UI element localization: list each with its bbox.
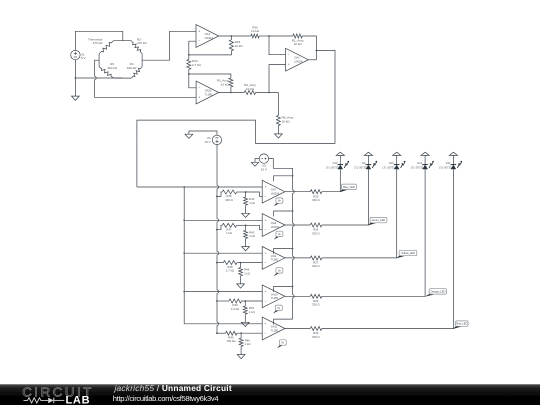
node OA2 + / R6_Amp — [268, 92, 270, 94]
net flag Red_LED — [453, 321, 468, 329]
svg-text:LTL-30733: LTL-30733 — [439, 165, 452, 169]
label R4 220 kOhm — [127, 62, 137, 70]
wire hop over row3 output — [293, 256, 295, 259]
resistor R4_Amp 10 k — [244, 91, 255, 95]
label R30 330 Ω — [312, 331, 320, 339]
comparator OA9 TL081 (row3) — [262, 247, 285, 270]
wire hop over row4 output — [293, 295, 295, 298]
svg-text:Blue_LED: Blue_LED — [343, 185, 355, 189]
wire — [240, 333, 242, 338]
wire R34 top — [230, 36, 232, 40]
LED D10 — [394, 161, 406, 170]
ground row4 divider — [241, 322, 249, 326]
label D12 LTL-30733 — [411, 161, 424, 169]
wire OA3 - input — [189, 41, 196, 55]
comparator OA11 TL081 (row5) — [262, 317, 285, 340]
comparator OA8 LM324 (row2) — [262, 214, 285, 237]
svg-text:D10: D10 — [389, 161, 394, 165]
voltage source V5 15V — [259, 154, 268, 163]
comparator OA10 TL081 (row4) — [262, 285, 285, 308]
node reference bus tap row5 — [216, 332, 218, 334]
svg-text:LM324: LM324 — [294, 60, 303, 64]
svg-text:4.3 kΩ: 4.3 kΩ — [231, 307, 239, 311]
svg-text:+: + — [265, 290, 267, 294]
resistor R42 1 kΩ (row1 divider bottom) — [244, 197, 248, 205]
wire — [240, 346, 242, 354]
wire OA10 output — [285, 295, 310, 297]
svg-text:1 kΩ: 1 kΩ — [249, 310, 255, 314]
wire bridge top segment — [114, 40, 132, 42]
svg-text:470 kΩ: 470 kΩ — [137, 41, 147, 45]
svg-text:TL081: TL081 — [271, 328, 279, 332]
power flag for D13 — [336, 152, 344, 155]
wire divider to OA - row2 — [246, 225, 263, 229]
svg-text:220 kΩ: 220 kΩ — [127, 66, 137, 70]
resistor R25 330 Ω (row1 output) — [310, 190, 322, 194]
net flag 0v at OA7 V- pin — [274, 198, 283, 206]
svg-text:1 kΩ: 1 kΩ — [245, 342, 251, 346]
label R2_Amp 10 kOhm — [217, 78, 229, 86]
label R36 300 Ω — [225, 194, 233, 202]
svg-text:+: + — [198, 96, 200, 100]
wire OA8 output — [285, 224, 310, 226]
svg-text:LTL-30733: LTL-30733 — [354, 165, 367, 169]
resistor R40 150 kΩ (row5 divider top) — [226, 331, 237, 335]
svg-text:D13: D13 — [333, 161, 338, 165]
label R37 1 kΩ — [226, 228, 232, 236]
resistor R35 10 k — [251, 34, 259, 38]
svg-text:OA8: OA8 — [271, 221, 277, 225]
resistor R43 1 kΩ (row2 divider bottom) — [244, 230, 248, 238]
CircuitLab logo — [22, 384, 94, 405]
wire bridge right node to OA3 + — [142, 31, 196, 60]
label V4 15 V — [204, 136, 211, 144]
wire — [237, 191, 246, 193]
svg-text:OA52: OA52 — [205, 89, 212, 93]
svg-text:−: − — [265, 332, 267, 336]
label R35 10 kOhm — [251, 25, 260, 33]
label R46 1 kΩ — [245, 338, 251, 346]
label R29 330 Ω — [312, 299, 320, 307]
wire bridge right segment — [141, 54, 143, 67]
svg-text:OA10: OA10 — [271, 292, 278, 296]
label D10 LTL-30733 — [382, 161, 395, 169]
wire V1+ to bridge top — [75, 31, 122, 50]
resistor R36 300 Ω (row1 divider top) — [222, 190, 236, 194]
svg-text:1 kΩ: 1 kΩ — [226, 231, 232, 235]
svg-text:http://circuitlab.com/csf58twy: http://circuitlab.com/csf58twy6k3v4 — [113, 394, 219, 403]
svg-text:150 kΩ: 150 kΩ — [227, 339, 236, 343]
label R33 2.7 kOhm — [192, 59, 202, 67]
wire supply bus — [292, 193, 294, 223]
node supply bus row3 — [292, 248, 294, 250]
comparator OA7 LM324 (row1) — [262, 180, 285, 203]
svg-text:−: − — [288, 53, 290, 57]
resistor R33 2.7 k — [187, 59, 191, 69]
svg-text:+: + — [265, 185, 267, 189]
wire hop over row5 rail — [217, 322, 219, 325]
label R43 1 kΩ — [249, 230, 255, 238]
wire OA8 V+ supply pin — [274, 211, 293, 216]
svg-text:10 kΩ: 10 kΩ — [282, 119, 291, 123]
wire OA10 V+ supply pin — [274, 287, 293, 292]
svg-text:OA11: OA11 — [271, 325, 278, 329]
node reference bus tap row4 — [216, 300, 218, 302]
resistor R2_Amp 10 k — [229, 78, 233, 87]
wire OA11 V+ supply pin — [274, 319, 293, 324]
wire reference bus — [216, 222, 218, 252]
wire OA2 output — [308, 59, 316, 61]
wire supply bus — [292, 227, 294, 257]
svg-text:OA7: OA7 — [271, 188, 277, 192]
resistor R46 1 kΩ (row5 divider bottom) — [239, 338, 243, 346]
node signal bus row4 — [183, 291, 185, 293]
label R1_Amp 10 kOhm — [292, 38, 304, 46]
wire hop over row2 output — [293, 223, 295, 226]
wire to R1_Amp — [269, 35, 293, 37]
voltage source V1 5V — [71, 50, 80, 59]
wire reference bus — [216, 293, 218, 322]
wire — [339, 155, 341, 164]
label V5 15 V — [261, 164, 267, 172]
wire reference tap row5 — [217, 332, 226, 334]
wire — [237, 262, 262, 264]
svg-text:−: − — [265, 228, 267, 232]
wire signal distribution bus — [183, 187, 185, 324]
wire to OA2 - input — [269, 36, 286, 55]
voltage source V4 15V — [212, 135, 221, 144]
wire R35 to node — [259, 35, 269, 37]
wire reference tap row1 — [217, 192, 222, 196]
wire R6_Amp bottom — [277, 126, 279, 134]
node signal bus row2 — [183, 219, 185, 221]
LED D11 — [451, 161, 463, 170]
label R4_Amp 10 kOhm — [244, 83, 256, 91]
svg-text:2.7 kΩ: 2.7 kΩ — [226, 269, 234, 273]
wire V4+ reference bus — [216, 144, 218, 185]
label D13 LTL-30733 — [326, 161, 339, 169]
svg-text:LM324: LM324 — [271, 192, 280, 196]
svg-text:LTL-30733: LTL-30733 — [382, 165, 395, 169]
wire — [244, 314, 246, 322]
svg-text:OA2: OA2 — [294, 56, 300, 60]
wire R4_Amp to node — [256, 92, 279, 94]
svg-text:+: + — [288, 63, 290, 67]
wire — [452, 155, 454, 164]
svg-text:LM324: LM324 — [205, 36, 214, 40]
wire output to LED2 column — [322, 169, 369, 225]
node OA3 output — [231, 35, 233, 37]
node reference bus tap row1 — [216, 196, 218, 198]
node divider row4 — [244, 300, 246, 302]
wire V4- to ground — [189, 131, 217, 136]
label R42 1 kΩ — [249, 197, 255, 205]
op-amp OA3 LM324 — [196, 25, 219, 48]
wire feedback rail to R34 — [189, 51, 232, 55]
svg-text:330 Ω: 330 Ω — [312, 335, 320, 339]
wire down to R6_Amp — [277, 93, 279, 116]
wire to OA52 - input — [189, 74, 196, 88]
wire signal rail row1 — [137, 186, 262, 188]
node R33 / OA52 — [188, 73, 190, 75]
svg-text:15 V: 15 V — [204, 140, 210, 144]
wire V1- down — [74, 59, 76, 96]
node supply bus row2 — [292, 210, 294, 212]
label R27 330 Ω — [312, 261, 320, 269]
net flag Green_LED — [368, 217, 387, 225]
wire V5+ supply bus — [268, 159, 292, 191]
svg-text:jackrich55 / Unnamed Circuit: jackrich55 / Unnamed Circuit — [114, 383, 232, 393]
svg-text:330 Ω: 330 Ω — [312, 303, 320, 307]
label R38 2.7 kΩ — [226, 265, 234, 273]
wire reference tap row3 — [217, 262, 224, 264]
svg-text:+: + — [265, 322, 267, 326]
svg-text:10 kΩ: 10 kΩ — [221, 82, 230, 86]
wire OA2 + input down — [269, 65, 286, 93]
svg-text:+: + — [198, 29, 200, 33]
wire reference tap row2 — [217, 225, 222, 229]
svg-text:Yellow_LED: Yellow_LED — [401, 251, 415, 255]
net flag 0v at OA10 V- pin — [273, 305, 282, 313]
label R26 330 Ω — [312, 228, 320, 236]
svg-text:D11: D11 — [446, 161, 451, 165]
svg-text:1 kΩ: 1 kΩ — [249, 234, 255, 238]
label R34 10 kOhm — [235, 40, 244, 48]
LED D12 — [422, 161, 434, 170]
node divider row2 — [245, 224, 247, 226]
svg-text:+: + — [265, 218, 267, 222]
wire supply bus — [292, 260, 294, 295]
wire V5- to ground — [255, 159, 260, 163]
wire reference bus — [216, 325, 218, 333]
label R25 330 Ω — [312, 194, 320, 202]
svg-text:OA3: OA3 — [205, 32, 211, 36]
svg-text:300 Ω: 300 Ω — [225, 198, 233, 202]
svg-text:−: − — [265, 195, 267, 199]
ground row5 divider — [237, 355, 245, 359]
ground row1 divider — [242, 213, 250, 217]
svg-text:TL081: TL081 — [271, 258, 279, 262]
net flag 0v at OA9 V- pin — [274, 268, 283, 276]
svg-text:D12: D12 — [417, 161, 422, 165]
node OA52 output — [230, 92, 232, 94]
wire bridge left node down — [95, 60, 100, 76]
svg-text:LM324: LM324 — [271, 225, 280, 229]
op-amp OA2 LM324 — [286, 48, 309, 71]
wire hop over row1 rail — [217, 185, 219, 188]
resistor R38 2.7 kΩ (row3 divider top) — [223, 261, 237, 265]
svg-text:LTL-30733: LTL-30733 — [326, 165, 339, 169]
wire OA9 V+ supply pin — [274, 249, 293, 254]
svg-text:1 kΩ: 1 kΩ — [244, 271, 250, 275]
ground at V5 — [251, 162, 258, 166]
wire — [245, 205, 247, 213]
node supply bus row4 — [292, 286, 294, 288]
wire output to LED4 column — [322, 169, 425, 296]
label D9 LTL-30733 — [354, 161, 367, 169]
svg-text:OA9: OA9 — [271, 254, 277, 258]
svg-text:TL081: TL081 — [271, 296, 279, 300]
label R45 1 kΩ — [249, 306, 255, 314]
resistor R34 10 k — [229, 40, 233, 51]
LED D9 — [366, 161, 378, 170]
wire OA2 output loop to comparator bus — [137, 50, 335, 187]
svg-text:−: − — [198, 86, 200, 90]
wire — [240, 263, 242, 268]
resistor R2 470 k (bridge top-right arm) — [131, 41, 142, 54]
node signal bus tap — [183, 186, 185, 188]
resistor R27 330 Ω (row3 output) — [310, 256, 322, 260]
wire — [424, 155, 426, 164]
wire bridge left segment — [98, 54, 100, 67]
svg-text:360 kΩ: 360 kΩ — [107, 66, 117, 70]
label R44 1 kΩ — [244, 268, 250, 276]
svg-text:2.7 kΩ: 2.7 kΩ — [192, 63, 202, 67]
wire — [367, 155, 369, 164]
svg-text:10 kΩ: 10 kΩ — [251, 29, 260, 33]
svg-text:Orange_LED: Orange_LED — [430, 289, 445, 293]
svg-text:−: − — [198, 39, 200, 43]
resistor R4 220 k (bridge bottom-right arm) — [131, 67, 142, 78]
node divider row3 — [240, 262, 242, 264]
ground at V1 — [72, 96, 80, 100]
power flag for D9 — [364, 152, 372, 155]
svg-text:330 Ω: 330 Ω — [312, 231, 320, 235]
wire — [245, 225, 247, 230]
wire to R33 — [188, 55, 190, 60]
wire — [245, 239, 247, 247]
net flag 0v at OA11 V- pin — [277, 340, 286, 348]
wire to R2_Amp — [189, 74, 231, 78]
wire OA52 output — [219, 92, 244, 94]
wire reference bus — [216, 255, 218, 290]
wire — [237, 224, 246, 226]
wire — [242, 300, 263, 302]
wire R33 bottom — [188, 69, 190, 74]
node divider row1 — [245, 191, 247, 193]
resistor R1_Amp 10 k — [293, 34, 303, 38]
power flag for D12 — [421, 152, 429, 155]
resistor R39 4.3 kΩ (row4 divider top) — [229, 299, 242, 303]
label R6_Amp 10 kOhm — [282, 115, 294, 123]
wire down to OA52 + — [95, 80, 197, 98]
wire OA11 output — [285, 328, 310, 330]
svg-text:TL081: TL081 — [205, 92, 213, 96]
node OA2 - branch — [268, 35, 270, 37]
wire output to LED5 column — [322, 169, 454, 328]
node reference bus tap row2 — [216, 229, 218, 231]
label D11 LTL-30733 — [439, 161, 452, 169]
wire hop over ground rail — [95, 76, 97, 79]
resistor R37 1 kΩ (row2 divider top) — [222, 223, 236, 227]
svg-text:+: + — [265, 251, 267, 255]
ground at V4 — [185, 134, 193, 138]
node OA2 output branch — [316, 50, 318, 52]
ground row3 divider — [237, 284, 245, 288]
svg-text:1 kΩ: 1 kΩ — [249, 201, 255, 205]
svg-text:−: − — [265, 299, 267, 303]
svg-text:10 kΩ: 10 kΩ — [235, 44, 244, 48]
svg-text:10 kΩ: 10 kΩ — [294, 42, 303, 46]
wire hop over row3 rail — [217, 252, 219, 255]
label V1 5 V — [81, 52, 86, 60]
node V1- / bottom rail junction — [75, 77, 77, 79]
wire OA9 output — [285, 257, 310, 259]
net flag Orange_LED — [425, 289, 447, 297]
wire OA7 V+ supply pin — [274, 176, 293, 181]
wire hop over row1 output — [293, 190, 295, 193]
wire signal rail row3 — [184, 252, 262, 254]
power flag for D10 — [393, 152, 401, 155]
svg-text:−: − — [265, 261, 267, 265]
node divider row5 — [240, 332, 242, 334]
wire LED1 column — [339, 169, 341, 191]
svg-text:5 V: 5 V — [81, 56, 86, 60]
resistor R3 360 k (bridge bottom-left arm) — [99, 67, 113, 78]
wire output to LED column — [322, 191, 340, 193]
wire — [237, 332, 262, 334]
svg-text:Red_LED: Red_LED — [456, 322, 467, 326]
label Thermistor 470 kOhm — [88, 37, 103, 45]
power flag for D11 — [449, 152, 457, 155]
label R3 360 kOhm — [107, 62, 117, 70]
resistor R30 330 Ω (row5 output) — [310, 327, 322, 331]
label R40 150 kΩ — [227, 335, 236, 343]
wire R2_Amp bottom — [230, 87, 232, 93]
svg-text:LAB: LAB — [66, 395, 91, 405]
net flag Yellow_LED — [396, 250, 417, 258]
svg-text:10 kΩ: 10 kΩ — [246, 87, 255, 91]
svg-text:LTL-30733: LTL-30733 — [411, 165, 424, 169]
wire R1_Amp to OA2 output — [302, 36, 316, 60]
wire — [396, 155, 398, 164]
wire reference bus — [216, 189, 218, 219]
node OA3 feedback — [188, 54, 190, 56]
wire hop over row2 rail — [217, 219, 219, 222]
LED D13 — [338, 161, 350, 170]
ground below R6_Amp — [275, 134, 283, 138]
wire — [240, 276, 242, 284]
wire — [244, 301, 246, 306]
wire bridge bottom segment — [114, 77, 132, 79]
wire supply bus — [292, 298, 294, 319]
net flag 0v at OA8 V- pin — [274, 231, 283, 239]
ground row2 divider — [242, 247, 250, 251]
resistor R26 330 Ω (row2 output) — [310, 223, 322, 227]
wire bottom rail to bridge bottom — [75, 77, 122, 79]
wire — [245, 192, 247, 197]
svg-text:470 kΩ: 470 kΩ — [93, 41, 103, 45]
node signal bus row3 — [183, 252, 185, 254]
net flag Blue_LED — [340, 184, 357, 192]
svg-text:15 V: 15 V — [261, 168, 267, 172]
resistor R45 1 kΩ (row4 divider bottom) — [243, 306, 247, 314]
svg-text:D9: D9 — [362, 161, 366, 165]
node reference bus tap row3 — [216, 262, 218, 264]
wire signal rail row2 — [184, 219, 262, 221]
label R39 4.3 kΩ — [231, 303, 239, 311]
svg-text:330 Ω: 330 Ω — [312, 198, 320, 202]
wire hop over row4 rail — [217, 290, 219, 293]
resistor R29 330 Ω (row4 output) — [310, 294, 322, 298]
op-amp OA52 TL081 — [196, 81, 219, 104]
wire OA7 output — [285, 191, 310, 193]
svg-text:330 Ω: 330 Ω — [312, 264, 320, 268]
svg-text:Green_LED: Green_LED — [372, 218, 386, 222]
wire divider to OA - row1 — [246, 192, 263, 196]
resistor R44 1 kΩ (row3 divider bottom) — [239, 268, 243, 276]
label R2 470 kOhm — [137, 37, 147, 45]
